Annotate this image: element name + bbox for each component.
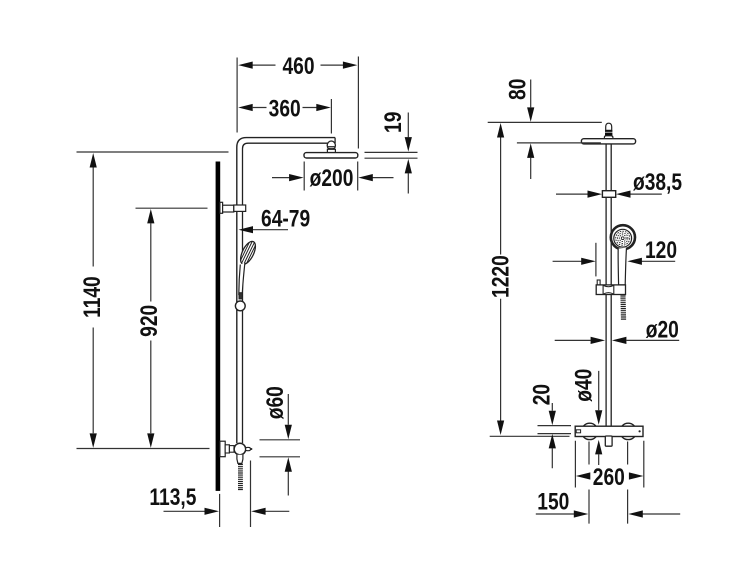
hose connector below valve <box>237 455 243 464</box>
mixer bar body <box>575 426 643 436</box>
top ball knob <box>604 123 613 138</box>
dim 120 extension line <box>595 243 597 277</box>
left valve escutcheon circle <box>582 423 598 439</box>
overhead shower head plate (front view) <box>581 139 635 144</box>
mixer valve body <box>234 443 246 455</box>
dim 80 line and arrows <box>530 80 532 180</box>
bracket collar on pipe <box>234 205 246 211</box>
mixer wall flange <box>220 441 225 457</box>
dim 80 lower reference line <box>517 142 601 144</box>
dim 460 extension lines <box>237 57 358 149</box>
handle end piece <box>239 293 242 299</box>
dim 120 line and arrows <box>553 260 676 262</box>
dim 113,5 line and arrows <box>164 510 290 512</box>
dim 1220 line and arrows <box>500 138 502 421</box>
svg-text:460: 460 <box>282 52 314 80</box>
svg-text:19: 19 <box>379 112 407 133</box>
dim 920 line and arrows <box>150 223 152 433</box>
hand shower head (front view) <box>611 225 635 249</box>
top reference line (right figure) <box>488 121 602 123</box>
ribbed hose (front view) <box>620 296 626 319</box>
dim ø60 line and arrows <box>287 394 289 496</box>
svg-text:150: 150 <box>537 487 569 515</box>
dim 920 top reference line <box>136 207 208 209</box>
svg-text:ø38,5: ø38,5 <box>633 168 682 196</box>
dim 1140 line and arrows <box>92 167 94 433</box>
shower arm end cap <box>334 138 336 144</box>
svg-text:113,5: 113,5 <box>149 483 196 511</box>
dim 150 line and arrows <box>536 513 680 515</box>
svg-text:360: 360 <box>269 94 301 122</box>
svg-text:120: 120 <box>645 236 677 264</box>
bottom reference line (right figure) <box>490 435 570 437</box>
ball joint under arm <box>327 141 335 153</box>
dim ø200 line and arrows <box>272 177 394 179</box>
svg-text:ø40: ø40 <box>569 369 597 402</box>
dim ø20 line and arrows <box>555 339 680 341</box>
dim 260 arrows <box>576 472 591 479</box>
dim 260 extension lines <box>575 441 643 488</box>
dim ø38,5 line and arrows <box>556 193 662 195</box>
dim 360 line and arrows <box>253 107 317 109</box>
top reference line <box>77 151 229 153</box>
svg-text:20: 20 <box>527 384 555 405</box>
dim 64-79 leader arrow <box>252 229 288 231</box>
dim 19 extension lines <box>365 152 418 158</box>
hand shower handle (front view) <box>618 248 626 285</box>
riser pipe (front view) <box>606 144 611 427</box>
wall bracket body <box>223 205 234 212</box>
dim 20 extension lines <box>538 426 572 434</box>
riser pipe with bend and shower arm (inner line) <box>243 143 336 443</box>
svg-text:1140: 1140 <box>78 276 106 318</box>
ribbed hose (left view) <box>238 465 243 490</box>
dim ø60 extension lines <box>260 440 301 457</box>
svg-text:80: 80 <box>504 79 532 100</box>
collar ø38,5 on pipe <box>602 191 615 198</box>
dim 360 extension line <box>330 99 332 134</box>
svg-text:64-79: 64-79 <box>261 205 310 233</box>
mixer bar right dot <box>639 430 641 432</box>
mixer stepped connector <box>225 445 229 453</box>
dim ø40 line and arrows <box>598 371 600 465</box>
dim 20 line and arrows <box>551 403 553 468</box>
wall panel (black bar) <box>216 162 221 491</box>
svg-text:920: 920 <box>135 305 163 337</box>
right valve escutcheon circle <box>620 423 636 439</box>
svg-text:ø200: ø200 <box>310 164 354 192</box>
mixer outlet spout <box>246 447 251 450</box>
svg-text:1220: 1220 <box>487 255 515 298</box>
dim 460 line and arrows <box>253 64 344 66</box>
bottom reference line (left figure) <box>77 448 210 450</box>
hand shower handle (profile) <box>239 263 245 295</box>
slider bracket <box>596 280 625 295</box>
slider knob circle <box>235 301 245 311</box>
svg-text:ø20: ø20 <box>646 316 679 344</box>
svg-text:260: 260 <box>593 463 625 491</box>
riser pipe with bend and shower arm (outer line) <box>237 138 335 443</box>
wall bracket flange <box>220 202 223 213</box>
overhead shower head plate (side view) <box>304 153 358 158</box>
dim 19 line and arrows <box>407 113 409 194</box>
dim 113,5 extension lines <box>220 461 251 528</box>
dim ø200 extension lines <box>304 162 358 191</box>
hand shower head (profile, hatched) <box>238 239 259 266</box>
mixer bar left inlet mark <box>576 430 580 433</box>
mixer outlet below bar <box>605 436 612 446</box>
svg-text:ø60: ø60 <box>261 386 289 419</box>
dim 150 extension lines <box>589 442 628 524</box>
